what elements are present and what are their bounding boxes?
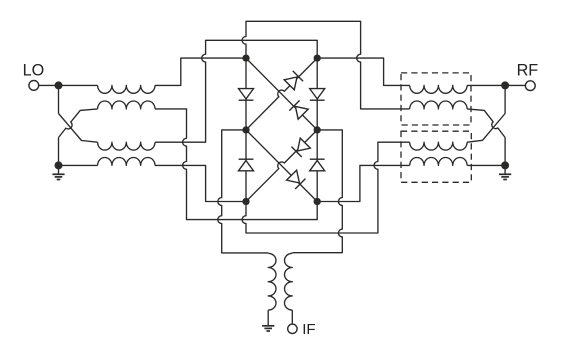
svg-text:IF: IF — [302, 321, 315, 338]
wire IF right winding to terminal — [291, 310, 293, 324]
wire diagonal TL to MR — [246, 58, 317, 130]
ground RF — [504, 165, 506, 174]
inductor T3 secondary (RF second winding) — [410, 101, 467, 109]
wire RF T3 primary to RF junction — [467, 84, 505, 86]
inductor T4 secondary (RF third winding) — [410, 142, 467, 150]
wire node ML to IF transformer left winding — [218, 130, 268, 253]
node BL — [242, 198, 249, 205]
dashed box RF transformer T4 — [401, 131, 471, 182]
node LO junction — [55, 81, 63, 89]
terminal LO — [29, 81, 39, 91]
node TR — [314, 54, 321, 61]
diode D3 (right upper, cathode down) — [310, 89, 325, 99]
wire IF left winding to ground — [267, 310, 269, 326]
inductor T1 secondary (LO second winding) — [98, 101, 155, 109]
node ML — [242, 126, 249, 133]
wire RF crossover lower diagonal (hops) — [467, 109, 505, 138]
wire LO crossover upper diagonal — [59, 114, 98, 143]
diode D8 (on ML-BR diagonal, cathode toward BR) — [287, 170, 300, 183]
wire node TR to RF T3 primary — [317, 58, 410, 85]
inductor T5 left winding (IF transformer) — [268, 253, 276, 310]
wire LO ground riser — [58, 138, 60, 166]
inductor T2 secondary (LO third winding) — [98, 142, 155, 150]
terminal RF — [525, 81, 535, 91]
wire RF junction down — [504, 85, 506, 113]
wire RF ground junction to T4 primary — [467, 164, 505, 166]
inductor T3 primary (RF top winding) — [410, 85, 467, 93]
wire RF junction to terminal — [505, 84, 525, 86]
wire diode column right upper — [316, 58, 318, 130]
wire LO junction down — [58, 85, 60, 113]
wire LO terminal to junction — [39, 84, 59, 86]
diode D5 (on ML-TR diagonal, cathode toward TR) — [284, 77, 297, 90]
node MR — [314, 126, 321, 133]
wire diagonal BL to MR (hop) — [246, 130, 317, 202]
diode D1 (left upper, cathode down) — [239, 89, 254, 99]
wire LO junction to T1 primary — [59, 84, 98, 86]
node TL — [242, 54, 249, 61]
wire diode column right lower — [316, 130, 318, 202]
wire diagonal ML to TR (hop) — [246, 58, 317, 130]
wire node BL to RF T4 secondary (hops) — [242, 142, 410, 233]
ground IF — [262, 325, 274, 327]
wire LO T1 secondary to node BR (hops rows 3,4) — [155, 109, 317, 220]
wire diode column left lower — [245, 130, 247, 202]
diode D2 (left lower, cathode up) — [239, 161, 254, 171]
terminal IF — [288, 324, 297, 333]
dashed box RF transformer T3 — [401, 73, 471, 125]
inductor T2 primary (LO bottom winding) — [98, 157, 155, 165]
diode D6 (on TL-MR diagonal, cathode toward TL) — [295, 106, 308, 119]
svg-text:RF: RF — [517, 62, 539, 80]
diode D7 (on BL-MR diagonal, cathode toward BL) — [298, 138, 311, 151]
wire node TL over top to RF T3 secondary — [242, 21, 410, 109]
wire LO crossover lower diagonal (hops) — [59, 109, 98, 138]
wire LO ground junction to T2 primary — [59, 164, 98, 166]
svg-text:LO: LO — [23, 62, 45, 80]
node LO ground junction — [55, 161, 63, 169]
wire RF ground riser — [504, 138, 506, 166]
node RF junction — [501, 81, 509, 89]
wire LO T2 secondary to node TR (hops node line) — [155, 40, 317, 142]
inductor T4 primary (RF bottom winding) — [410, 157, 467, 165]
wire diode column left upper — [245, 58, 247, 130]
wire node MR to IF transformer right winding — [292, 130, 342, 253]
diode D4 (right lower, cathode up) — [310, 161, 325, 171]
node BR — [314, 198, 321, 205]
inductor T5 right winding (IF transformer) — [284, 253, 292, 310]
ground LO — [58, 165, 60, 174]
wire node BR to RF T4 primary — [317, 165, 410, 201]
node RF ground junction — [501, 161, 509, 169]
wire LO T2 primary to node BL — [155, 165, 246, 201]
wire diagonal ML to BR — [246, 130, 317, 202]
wire LO T1 primary to node TL — [155, 58, 246, 85]
wire RF crossover upper diagonal — [467, 114, 505, 143]
inductor T1 primary (LO top winding) — [98, 85, 155, 93]
